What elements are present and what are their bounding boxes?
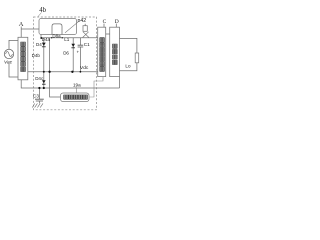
C label stub <box>103 24 105 28</box>
EMI filter box <box>18 37 28 80</box>
diode D4a <box>40 37 75 85</box>
capacitor C1 <box>79 38 81 45</box>
svg-text:C: C <box>103 19 107 25</box>
svg-text:D4b: D4b <box>32 53 41 58</box>
D box bottom stub <box>119 77 121 88</box>
svg-text:D4a: D4a <box>42 37 51 42</box>
svg-text:19a: 19a <box>73 82 81 87</box>
relay contact n42 <box>83 26 87 32</box>
relay assembly box 4a <box>39 19 77 35</box>
PFC box C text <box>100 38 105 72</box>
wire AC bottom to filter box <box>9 63 18 77</box>
diode D6 <box>71 44 75 47</box>
svg-text:+: + <box>77 49 80 54</box>
junction dots <box>38 37 81 89</box>
DC converter box D <box>110 27 120 76</box>
svg-text:D6: D6 <box>63 51 69 56</box>
diode D4c <box>42 80 46 83</box>
svg-text:D: D <box>115 19 119 25</box>
mid wire <box>28 71 98 73</box>
PFC box C <box>98 27 106 76</box>
svg-text:L1: L1 <box>64 37 70 42</box>
feedback wire C box to controller <box>89 77 103 97</box>
svg-text:C3: C3 <box>33 94 39 99</box>
wire AC top to filter box <box>9 40 18 49</box>
AC source Vac <box>4 49 13 58</box>
bridge right leg <box>72 38 74 72</box>
D label stub <box>115 24 117 28</box>
svg-text:4b: 4b <box>39 7 46 14</box>
connector between boxes <box>106 33 110 35</box>
node A stub <box>20 27 22 38</box>
wire top AC line into relay box <box>21 28 39 30</box>
svg-text:A: A <box>19 21 24 28</box>
top rail <box>41 37 98 39</box>
svg-text:C1: C1 <box>84 42 90 47</box>
svg-text:Vac: Vac <box>4 60 13 66</box>
bottom rail <box>21 80 119 88</box>
19a leader <box>75 87 78 93</box>
svg-text:D8a: D8a <box>52 33 61 38</box>
controller box text <box>64 95 88 99</box>
bridge left leg <box>43 38 45 88</box>
load resistor Lo <box>135 53 139 63</box>
4b leader <box>38 13 42 17</box>
capacitor C3 + ground <box>38 88 40 99</box>
load loop wires <box>120 38 137 53</box>
hump (contact housing) <box>52 24 62 35</box>
junction node top <box>40 37 42 39</box>
svg-text:D4c: D4c <box>35 76 44 81</box>
svg-text:D4: D4 <box>36 42 42 47</box>
relay box output stub <box>40 35 42 38</box>
controller box <box>61 93 90 102</box>
svg-text:n42: n42 <box>78 18 87 24</box>
dashed box 4b <box>34 17 97 110</box>
EMI filter box text <box>21 42 26 71</box>
svg-text:Vdc: Vdc <box>80 65 89 71</box>
sense wire to controller <box>50 38 61 97</box>
svg-text:Lo: Lo <box>125 64 131 69</box>
DC box D text <box>113 44 118 64</box>
relay actuation arrow <box>65 21 79 33</box>
